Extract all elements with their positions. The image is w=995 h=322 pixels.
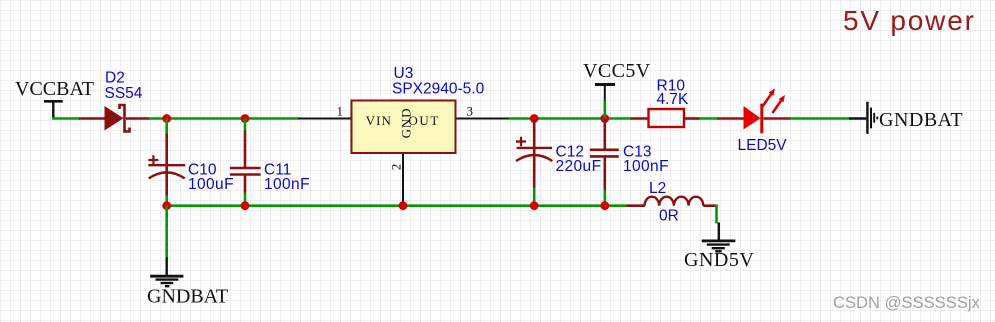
svg-text:3: 3 [467,104,474,119]
svg-text:100nF: 100nF [264,176,310,193]
svg-text:GND: GND [399,108,414,139]
capacitor C13 100nF [590,119,669,206]
svg-text:VCCBAT: VCCBAT [15,78,94,100]
ground GNDBAT bottom [147,257,228,307]
junction node at C12 top [530,114,539,123]
wire LED5V to GNDBAT port [790,117,850,120]
inductor L2 0R [627,180,717,225]
svg-text:GNDBAT: GNDBAT [879,109,963,131]
svg-text:4.7K: 4.7K [657,91,690,108]
capacitor C10 100uF [148,119,234,206]
resistor R10 4.7K [631,77,701,127]
svg-text:VCC5V: VCC5V [583,60,651,82]
svg-text:100nF: 100nF [623,158,669,175]
wire D2 to U3 pin 1 [149,117,299,120]
wire VCCBAT to D2 [52,117,80,120]
power port VCC5V [583,60,651,118]
capacitor C11 100nF [230,119,310,206]
junction node at C13 / VCC5V [600,114,609,123]
svg-text:L2: L2 [649,180,666,197]
junction node at C11 bottom [241,201,250,210]
svg-text:GNDBAT: GNDBAT [147,285,228,307]
svg-text:2: 2 [389,164,404,171]
bottom bus wire [167,204,628,207]
ground GND5V [684,223,754,272]
svg-text:SPX2940-5.0: SPX2940-5.0 [392,81,485,98]
svg-text:100uF: 100uF [188,176,234,193]
junction node at C11 top [241,114,250,123]
junction node at C10 bottom [162,201,171,210]
svg-text:220uF: 220uF [556,158,602,175]
wire L2 to GND5V [715,204,718,223]
power port GNDBAT right [849,102,963,134]
svg-text:LED5V: LED5V [738,137,788,154]
junction node at C12 bottom [530,201,539,210]
svg-text:5V power: 5V power [843,5,976,36]
regulator U3 SPX2940-5.0 [298,65,510,206]
wire C10 bottom to GNDBAT ground [165,206,168,259]
svg-text:1: 1 [337,104,344,119]
svg-text:GND5V: GND5V [684,249,754,271]
svg-text:D2: D2 [105,70,125,87]
svg-text:U3: U3 [394,65,414,82]
diode D2 SS54 [79,70,150,132]
svg-text:CSDN @SSSSSSjx: CSDN @SSSSSSjx [833,293,981,312]
svg-text:0R: 0R [659,207,679,224]
junction node at U3 pin 2 [399,201,408,210]
svg-text:SS54: SS54 [105,85,143,102]
junction node at C13 bottom [600,201,609,210]
wire U3 pin 3 to R10 [509,117,632,120]
power port VCCBAT [15,78,94,119]
svg-text:VIN: VIN [366,113,392,128]
LED LED5V [718,89,792,155]
wire R10 to LED5V [699,117,719,120]
junction node at C10 top [162,114,171,123]
capacitor C12 220uF [516,119,601,206]
